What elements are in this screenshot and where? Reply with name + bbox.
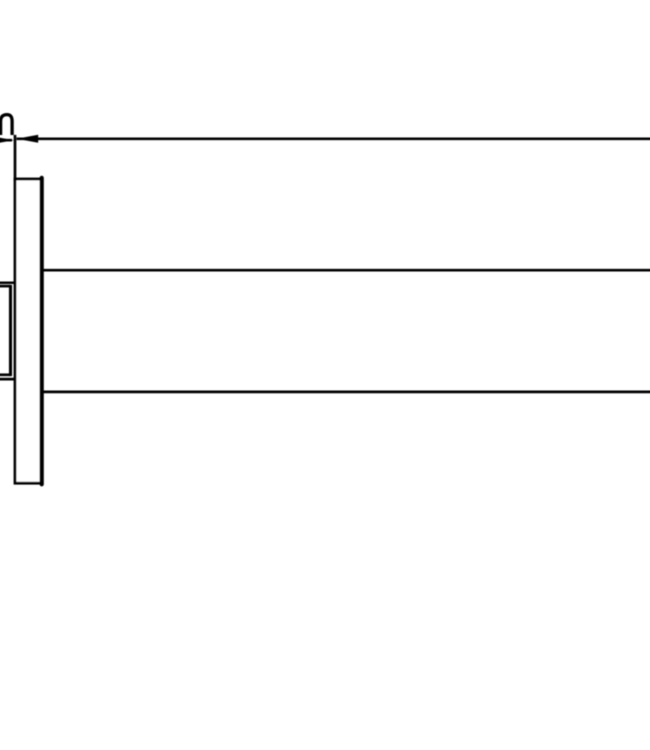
dimension label "mm" (cut off at left edge; last arch+stem visible) xyxy=(1,115,13,135)
shaft top line xyxy=(42,269,650,272)
dimension line left segment (from off-screen left) xyxy=(0,139,12,142)
dimension line right segment (runs off right edge) xyxy=(17,137,650,140)
hub inner bottom line xyxy=(0,373,11,376)
flange right face (thicker line) xyxy=(40,178,44,484)
hub inner top line xyxy=(0,285,11,288)
hub inner right edge xyxy=(9,285,12,376)
extension line above flange xyxy=(14,135,17,181)
hub outer top line (cut off at left edge) xyxy=(0,281,16,284)
arrowhead pointing left (tip at extension line) xyxy=(17,135,39,143)
arrowhead pointing right (tip at extension line, flares off-screen left) xyxy=(0,136,14,144)
shaft bottom line xyxy=(42,390,650,393)
flange body rectangle xyxy=(15,179,42,483)
hub outer bottom line xyxy=(0,378,16,381)
